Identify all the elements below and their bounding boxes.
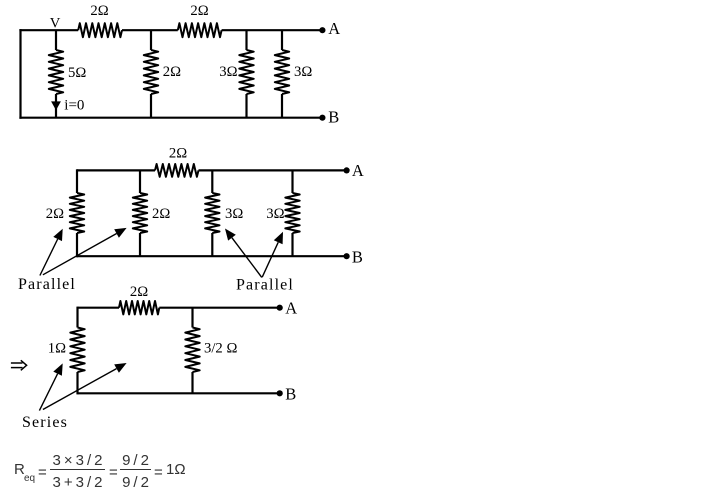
svg-text:A: A — [352, 161, 364, 180]
svg-text:2Ω: 2Ω — [46, 206, 64, 222]
wire: circuit 3 bottom rail — [78, 392, 280, 394]
svg-text:Series: Series — [22, 414, 68, 431]
svg-text:5Ω: 5Ω — [68, 65, 86, 81]
wire: circuit 2 bottom rail — [77, 255, 347, 257]
wire: circuit 1 top rail middle segment — [122, 29, 178, 31]
resistor 3Ω (circuit 2 branch 4) — [285, 193, 299, 233]
wire: circuit 2 top rail right segment to node A — [199, 169, 347, 171]
wire: circuit 2 branch 4 lower stub — [291, 233, 293, 256]
resistor 2Ω horizontal (circuit 1, between V and node 2) — [78, 23, 122, 37]
svg-text:B: B — [328, 108, 339, 127]
resistor 1Ω (circuit 3 branch 1) — [70, 328, 84, 373]
node B terminal (circuit 2) — [344, 253, 350, 259]
resistor 2Ω (circuit 2 branch 2) — [133, 193, 147, 233]
svg-text:3Ω: 3Ω — [219, 64, 237, 80]
pointer arrow from Parallel-left to 2Ω branch 1 — [40, 239, 58, 276]
node A terminal (circuit 3) — [277, 305, 283, 311]
svg-text:2Ω: 2Ω — [163, 64, 181, 80]
svg-text:1Ω: 1Ω — [48, 341, 66, 357]
svg-text:2Ω: 2Ω — [152, 206, 170, 222]
pointer arrow from Series to middle of circuit 3 — [43, 369, 117, 410]
wire: circuit 2 top rail left segment — [77, 169, 155, 171]
svg-text:2Ω: 2Ω — [90, 3, 108, 19]
resistor 2Ω (circuit 2 branch 1) — [70, 193, 84, 233]
svg-text:i=0: i=0 — [64, 98, 84, 114]
wire: circuit 1 branch 4 lower stub — [281, 94, 283, 118]
svg-text:A: A — [285, 299, 297, 318]
resistor 2Ω horizontal (circuit 2 top) — [155, 164, 199, 177]
wire: circuit 2 branch 1 upper stub — [76, 169, 78, 193]
current arrow i=0 (down arrow on 5Ω branch) — [51, 101, 61, 110]
svg-text:2Ω: 2Ω — [190, 3, 208, 19]
resistor 3/2Ω (circuit 3 branch 2) — [185, 328, 199, 373]
wire: circuit 1 branch V upper stub — [55, 30, 57, 50]
svg-text:Parallel: Parallel — [18, 276, 76, 293]
wire: circuit 3 branch 1 lower stub — [76, 372, 78, 394]
pointer arrow from Parallel-right to 3Ω branch 4 — [262, 242, 278, 277]
resistor 3Ω (circuit 1 branch 3) — [239, 50, 253, 94]
wire: circuit 3 top rail left segment — [78, 307, 120, 309]
pointer arrow from Parallel-right to 3Ω branch 3 — [232, 238, 262, 278]
svg-text:Parallel: Parallel — [236, 277, 294, 294]
resistor 2Ω horizontal (circuit 3 top) — [119, 301, 159, 314]
svg-text:3/2 Ω: 3/2 Ω — [204, 341, 237, 357]
equation Req = (3 x 3/2)/(3 + 3/2) = (9/2)/(9/2) = 1Ω — [0, 0, 1, 1]
wire: circuit 2 branch 2 upper stub — [139, 170, 141, 193]
wire: circuit 1 branch 2 upper stub — [150, 30, 152, 50]
wire: circuit 1 branch 3 upper stub — [245, 30, 247, 50]
svg-text:3Ω: 3Ω — [294, 64, 312, 80]
wire: circuit 2 branch 1 lower stub — [76, 233, 78, 257]
svg-text:2Ω: 2Ω — [130, 284, 148, 300]
node B terminal (circuit 3) — [277, 390, 283, 396]
resistor 3Ω (circuit 2 branch 3) — [205, 193, 219, 233]
wire: circuit 1 branch V lower stub with current arrow — [55, 94, 57, 118]
wire: circuit 2 branch 3 lower stub — [211, 233, 213, 256]
wire: circuit 3 branch 2 lower stub — [191, 372, 193, 393]
wire: circuit 1 bottom rail — [19, 117, 322, 119]
wire: circuit 1 branch 2 lower stub — [150, 94, 152, 118]
wire: circuit 3 branch 2 upper stub — [191, 308, 193, 328]
pointer arrow from Parallel-left to 2Ω branch 2 — [43, 234, 117, 275]
wire: circuit 2 branch 4 upper stub — [291, 170, 293, 193]
resistor 3Ω (circuit 1 branch 4) — [275, 50, 289, 94]
svg-text:B: B — [285, 384, 296, 403]
wire: circuit 3 top rail right segment to node A — [159, 307, 279, 309]
wire: circuit 1 left edge — [19, 29, 21, 119]
svg-text:2Ω: 2Ω — [169, 146, 187, 162]
resistor 5Ω (circuit 1 left branch) — [49, 50, 63, 94]
resistor 2Ω horizontal (circuit 1, second) — [178, 23, 222, 37]
node A terminal (circuit 2) — [344, 167, 350, 173]
svg-text:A: A — [328, 19, 340, 38]
svg-text:3Ω: 3Ω — [266, 206, 284, 222]
implication arrow ⇒ — [11, 360, 27, 370]
resistor 2Ω vertical (circuit 1 branch 2) — [144, 50, 158, 94]
wire: circuit 1 branch 3 lower stub — [245, 94, 247, 118]
wire: circuit 1 branch 4 upper stub — [281, 30, 283, 50]
wire: circuit 3 branch 1 upper stub — [76, 307, 78, 328]
wire: circuit 1 top rail segment V-node to left — [19, 29, 78, 31]
svg-text:B: B — [352, 247, 363, 266]
wire: circuit 2 branch 3 upper stub — [211, 170, 213, 193]
pointer arrow from Series to 1Ω resistor — [39, 374, 57, 411]
node A terminal (circuit 1) — [319, 27, 325, 33]
svg-text:3Ω: 3Ω — [225, 206, 243, 222]
svg-text:V: V — [50, 16, 61, 32]
wire: circuit 2 branch 2 lower stub — [139, 233, 141, 256]
node B terminal (circuit 1) — [319, 115, 325, 121]
wire: circuit 1 top rail right segment to node A — [222, 29, 323, 31]
